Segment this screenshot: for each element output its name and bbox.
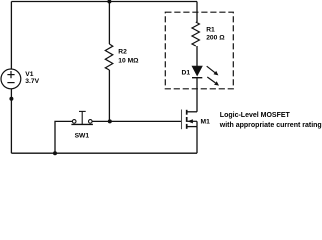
voltage source V1 bbox=[1, 69, 21, 89]
node junction dot at R2 top bbox=[107, 0, 111, 4]
wire R1 to D1 bbox=[196, 46, 198, 66]
svg-text:M1: M1 bbox=[201, 119, 211, 126]
svg-text:10 MΩ: 10 MΩ bbox=[118, 58, 139, 65]
transistor M1 n-channel MOSFET bbox=[182, 110, 198, 130]
svg-text:R2: R2 bbox=[118, 48, 127, 55]
wire left rail upper bbox=[10, 2, 12, 70]
dashed LED block box bbox=[165, 12, 233, 89]
svg-text:V1: V1 bbox=[25, 71, 33, 78]
node junction dot at R2 bottom bbox=[108, 119, 112, 123]
resistor R1 bbox=[192, 22, 199, 46]
wire SW1 branch bbox=[55, 121, 72, 153]
node junction dot at SW1 branch bbox=[53, 151, 57, 155]
wire left rail lower bbox=[10, 89, 12, 154]
switch SW1 pushbutton bbox=[71, 111, 93, 124]
wire SW1 to M1 gate bbox=[92, 120, 181, 122]
svg-text:3.7V: 3.7V bbox=[25, 78, 39, 85]
wire M1 source to bottom rail bbox=[196, 127, 198, 154]
svg-text:R1: R1 bbox=[206, 26, 215, 33]
svg-text:200 Ω: 200 Ω bbox=[206, 34, 225, 41]
wire bottom rail bbox=[11, 152, 197, 154]
wire R2 bottom lead bbox=[108, 70, 110, 121]
wire D1 cathode to M1 drain bbox=[196, 78, 198, 112]
wire R1 top lead bbox=[196, 2, 198, 23]
svg-text:with appropriate current ratin: with appropriate current rating bbox=[219, 122, 322, 129]
svg-text:SW1: SW1 bbox=[75, 133, 90, 140]
LED D1 bbox=[192, 66, 219, 86]
node junction dot below V1 bbox=[9, 97, 13, 101]
svg-text:Logic-Level MOSFET: Logic-Level MOSFET bbox=[220, 112, 291, 119]
wire top rail bbox=[11, 1, 197, 3]
svg-text:D1: D1 bbox=[182, 70, 191, 77]
resistor R2 bbox=[105, 44, 113, 70]
wire R2 top lead bbox=[108, 2, 110, 45]
